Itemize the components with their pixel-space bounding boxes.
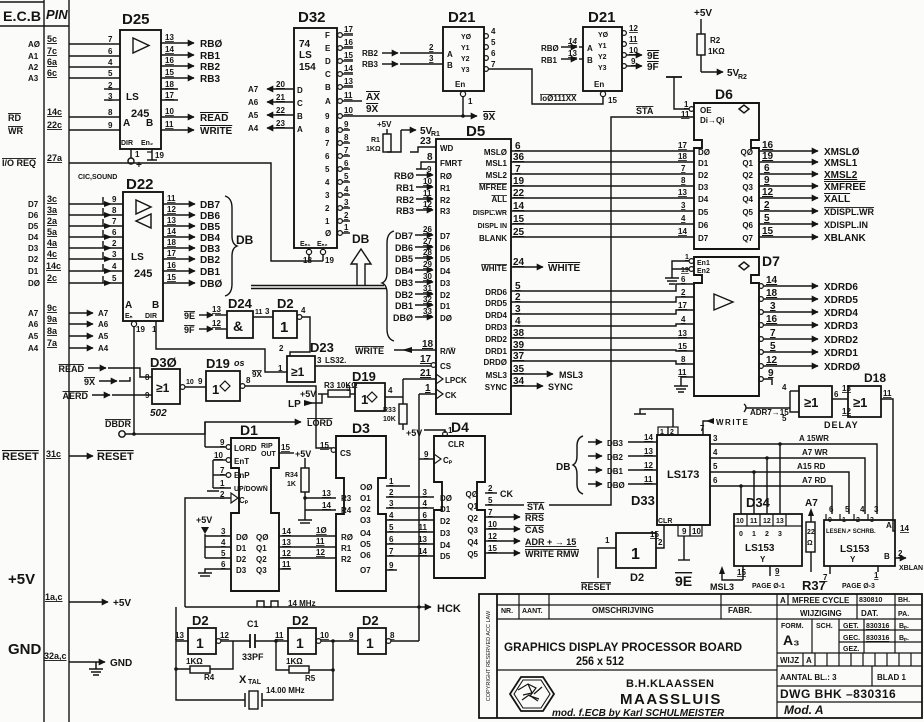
svg-text:D1: D1 <box>28 267 39 276</box>
ground symbol on GND rail <box>89 662 103 675</box>
svg-text:DRD1: DRD1 <box>485 347 507 356</box>
net STA from D4 Q1 <box>485 504 524 506</box>
svg-text:8: 8 <box>112 206 117 215</box>
data bus rows D7..D0 into D22 <box>69 197 123 283</box>
D24 output to D2 <box>253 316 273 318</box>
svg-text:2: 2 <box>112 239 117 248</box>
svg-text:6: 6 <box>112 228 117 237</box>
D33 pins 9,10 <box>678 525 690 536</box>
svg-text:10: 10 <box>320 631 329 640</box>
svg-text:14: 14 <box>568 37 577 46</box>
svg-text:8: 8 <box>246 376 251 385</box>
svg-text:8: 8 <box>427 152 433 163</box>
svg-text:A7: A7 <box>28 309 39 318</box>
svg-text:Y3: Y3 <box>461 67 470 74</box>
svg-text:QØ: QØ <box>466 490 478 499</box>
svg-text:29: 29 <box>423 260 432 269</box>
svg-text:1KΩ: 1KΩ <box>708 47 725 56</box>
svg-text:8: 8 <box>325 126 330 135</box>
svg-text:XDRD3: XDRD3 <box>824 321 858 332</box>
svg-text:B: B <box>884 552 890 561</box>
svg-text:Ø: Ø <box>325 229 331 238</box>
svg-text:4: 4 <box>681 315 686 324</box>
svg-text:3a: 3a <box>47 205 58 215</box>
DB bus brace right of D22 <box>225 196 237 296</box>
svg-text:9: 9 <box>220 438 225 447</box>
svg-text:D33: D33 <box>631 493 655 508</box>
svg-text:2c: 2c <box>47 273 57 283</box>
svg-text:D3: D3 <box>236 566 247 575</box>
title block grid lines <box>497 594 922 718</box>
svg-text:1: 1 <box>135 150 140 159</box>
svg-text:DB1: DB1 <box>607 467 624 476</box>
svg-text:13: 13 <box>678 188 687 197</box>
svg-text:PA.: PA. <box>898 611 909 618</box>
svg-text:9: 9 <box>631 57 636 66</box>
svg-text:A: A <box>297 125 303 134</box>
svg-text:D2: D2 <box>362 613 379 628</box>
wire osc1 input loop <box>176 607 188 641</box>
delay gate 1 <box>799 386 832 417</box>
svg-text:1: 1 <box>196 635 204 651</box>
svg-text:3c: 3c <box>47 194 57 204</box>
svg-text:A: A <box>125 300 132 311</box>
svg-text:1: 1 <box>344 223 349 232</box>
svg-text:D2: D2 <box>292 613 309 628</box>
svg-text:A: A <box>587 44 593 53</box>
svg-text:16: 16 <box>165 56 174 65</box>
svg-text:A7: A7 <box>98 309 109 318</box>
svg-text:9E: 9E <box>675 573 692 589</box>
svg-text:WD: WD <box>440 144 454 153</box>
svg-text:GND: GND <box>8 641 42 658</box>
svg-text:≥1: ≥1 <box>291 365 305 379</box>
svg-text:D: D <box>297 86 303 95</box>
svg-text:7: 7 <box>108 35 113 44</box>
svg-text:En2: En2 <box>697 268 710 275</box>
svg-text:D1: D1 <box>440 505 451 514</box>
svg-text:6: 6 <box>491 49 496 58</box>
svg-text:7: 7 <box>112 217 117 226</box>
svg-text:19: 19 <box>136 325 145 334</box>
svg-text:SCH.: SCH. <box>816 623 833 630</box>
svg-text:17: 17 <box>167 249 176 258</box>
svg-text:4: 4 <box>681 214 686 223</box>
net MSL3 arrow <box>511 373 553 375</box>
svg-text:XDRD2: XDRD2 <box>824 335 858 346</box>
svg-text:1Ø: 1Ø <box>316 526 327 535</box>
svg-text:CS: CS <box>440 362 452 371</box>
svg-text:DRD5: DRD5 <box>485 299 507 308</box>
svg-text:502: 502 <box>150 408 167 419</box>
svg-text:2: 2 <box>488 484 493 493</box>
svg-text:1: 1 <box>425 383 431 394</box>
svg-text:R4: R4 <box>341 506 352 515</box>
svg-text:12: 12 <box>488 532 497 541</box>
address rows A7..A4 <box>69 313 93 348</box>
svg-text:1: 1 <box>325 217 330 226</box>
svg-text:F: F <box>325 31 330 40</box>
svg-text:1: 1 <box>296 635 304 651</box>
svg-text:9: 9 <box>389 561 394 570</box>
svg-text:4c: 4c <box>47 249 57 259</box>
clock squarewave symbol <box>257 601 278 607</box>
D23 output to D5 CS <box>315 365 431 367</box>
net ADR+15 from D4 Q4 <box>485 540 520 542</box>
svg-text:5: 5 <box>221 549 226 558</box>
svg-text:os: os <box>234 358 245 368</box>
ECB connector column rails <box>43 0 45 722</box>
svg-text:19: 19 <box>762 151 774 162</box>
svg-text:WHITE: WHITE <box>548 263 581 274</box>
svg-text:Eₙ: Eₙ <box>125 313 133 320</box>
svg-text:GEZ.: GEZ. <box>843 646 859 653</box>
svg-text:XDISPL.IN: XDISPL.IN <box>824 220 868 230</box>
D5 FMRT pin 8 with ground hook <box>421 162 436 169</box>
svg-text:9: 9 <box>112 195 117 204</box>
wire D33 pin7 WRITE <box>703 421 712 435</box>
svg-text:1: 1 <box>874 571 879 580</box>
svg-text:1: 1 <box>631 546 640 563</box>
svg-text:2: 2 <box>898 549 903 558</box>
wires D5 MSL outputs to D6 <box>511 151 694 237</box>
svg-text:23: 23 <box>276 119 285 128</box>
svg-text:R1: R1 <box>431 131 440 138</box>
svg-text:12: 12 <box>220 631 229 640</box>
svg-text:D: D <box>325 57 331 66</box>
svg-text:MSLØ: MSLØ <box>484 148 507 157</box>
D25 En2 pin 19 <box>151 149 153 160</box>
svg-text:WRITE: WRITE <box>355 346 384 356</box>
svg-text:11: 11 <box>344 91 353 100</box>
wire 9X from D32 pin10 to D21 En and arrow <box>342 115 477 117</box>
svg-text:DB2: DB2 <box>200 255 220 266</box>
svg-text:FMRT: FMRT <box>440 159 462 168</box>
svg-text:RD: RD <box>8 113 21 123</box>
svg-text:Q5: Q5 <box>742 208 753 217</box>
svg-text:D5: D5 <box>698 208 709 217</box>
svg-text:WRITE RMW: WRITE RMW <box>525 549 579 559</box>
svg-text:DB6: DB6 <box>200 211 220 222</box>
svg-text:RB3: RB3 <box>362 60 379 69</box>
svg-text:4a: 4a <box>47 238 58 248</box>
svg-text:A7 WR: A7 WR <box>802 448 828 457</box>
D7 En1/En2 pins grounded <box>689 259 694 264</box>
svg-text:A 15WR: A 15WR <box>799 434 829 443</box>
svg-text:Q4: Q4 <box>742 195 753 204</box>
svg-text:AERD: AERD <box>62 391 88 401</box>
svg-text:A: A <box>325 97 331 106</box>
svg-text:R1: R1 <box>440 184 451 193</box>
svg-text:13: 13 <box>776 518 784 525</box>
svg-text:9: 9 <box>344 120 349 129</box>
svg-text:1: 1 <box>366 635 374 651</box>
svg-text:+5V: +5V <box>406 428 422 438</box>
svg-text:D1: D1 <box>440 302 451 311</box>
svg-text:HCK: HCK <box>437 603 461 615</box>
svg-text:O6: O6 <box>360 551 371 560</box>
svg-text:2: 2 <box>389 488 394 497</box>
svg-text:11: 11 <box>678 368 687 377</box>
svg-text:XDRD1: XDRD1 <box>824 348 858 359</box>
svg-text:20: 20 <box>276 80 285 89</box>
svg-text:RB1: RB1 <box>541 56 558 65</box>
svg-text:9X: 9X <box>252 370 262 379</box>
svg-text:WIJZIGING: WIJZIGING <box>800 609 842 618</box>
svg-text:DB3: DB3 <box>607 439 624 448</box>
svg-text:ADR + → 15: ADR + → 15 <box>525 537 576 547</box>
svg-text:9F: 9F <box>647 62 659 73</box>
svg-text:R2: R2 <box>341 555 352 564</box>
svg-text:D6: D6 <box>440 244 451 253</box>
svg-text:9: 9 <box>768 368 774 379</box>
svg-text:MSL3: MSL3 <box>559 370 583 380</box>
svg-text:XBLANK: XBLANK <box>824 233 866 244</box>
net 5V R1 <box>387 130 401 152</box>
svg-text:10: 10 <box>165 107 174 116</box>
svg-text:O5: O5 <box>360 540 371 549</box>
svg-text:Y1: Y1 <box>598 43 607 50</box>
svg-text:+5V: +5V <box>8 571 35 588</box>
svg-text:STA: STA <box>636 106 654 116</box>
svg-text:17: 17 <box>678 141 687 150</box>
svg-text:E.C.B: E.C.B <box>3 8 41 24</box>
svg-text:XDRD4: XDRD4 <box>824 308 858 319</box>
svg-text:14: 14 <box>900 524 909 533</box>
svg-text:D2: D2 <box>28 255 39 264</box>
svg-text:1: 1 <box>842 517 846 524</box>
svg-text:9a: 9a <box>47 314 58 324</box>
net MSL3 up arrow <box>722 570 743 580</box>
svg-text:5: 5 <box>325 165 330 174</box>
svg-text:12: 12 <box>212 319 221 328</box>
svg-text:11: 11 <box>419 523 428 532</box>
svg-text:5: 5 <box>845 505 850 514</box>
svg-text:1: 1 <box>468 97 473 106</box>
svg-text:7: 7 <box>325 139 330 148</box>
svg-text:ALL: ALL <box>491 195 507 204</box>
svg-text:WRITE: WRITE <box>716 418 749 427</box>
svg-text:15: 15 <box>678 342 687 351</box>
D30 output to D19 <box>180 385 185 390</box>
svg-text:DB4: DB4 <box>200 233 220 244</box>
svg-text:14c: 14c <box>47 107 62 117</box>
svg-text:18: 18 <box>303 256 312 265</box>
svg-text:1a,c: 1a,c <box>45 592 63 602</box>
svg-text:5: 5 <box>112 274 117 283</box>
wire CK vertical HCK rail <box>418 394 420 607</box>
ground under D1 D3 input <box>198 572 212 574</box>
svg-text:3: 3 <box>713 434 718 443</box>
D1 control input wires <box>205 447 231 488</box>
svg-text:8a: 8a <box>47 326 58 336</box>
svg-text:11: 11 <box>255 309 263 316</box>
svg-text:12: 12 <box>423 200 432 209</box>
svg-text:D7: D7 <box>762 253 780 269</box>
svg-text:D3: D3 <box>28 244 39 253</box>
logo hexagon <box>510 677 554 711</box>
svg-text:2: 2 <box>325 204 330 213</box>
svg-text:6a: 6a <box>47 57 58 67</box>
svg-text:18: 18 <box>678 152 687 161</box>
svg-text:7a: 7a <box>47 338 58 348</box>
svg-text:14: 14 <box>167 227 176 236</box>
net SYNC arrow <box>511 385 543 387</box>
svg-text:17: 17 <box>420 354 432 365</box>
svg-text:RRS: RRS <box>525 513 544 523</box>
svg-text:D2: D2 <box>277 296 294 311</box>
svg-text:3: 3 <box>265 307 270 316</box>
svg-text:A4: A4 <box>248 124 259 133</box>
svg-text:Y3: Y3 <box>598 65 607 72</box>
tap arrows on D rows <box>104 201 112 286</box>
net WHITE arrow <box>511 266 543 268</box>
wire D2 out to D33 CLR <box>656 525 664 548</box>
svg-text:PAGE Ø-3: PAGE Ø-3 <box>842 583 875 590</box>
svg-text:MSL3: MSL3 <box>486 371 508 380</box>
svg-text:DB5: DB5 <box>200 222 220 233</box>
svg-text:5: 5 <box>713 462 718 471</box>
svg-text:27: 27 <box>423 237 432 246</box>
svg-text:2: 2 <box>279 344 284 353</box>
wire WR row <box>69 129 120 131</box>
svg-text:MSL3: MSL3 <box>710 582 734 592</box>
svg-text:13: 13 <box>568 49 577 58</box>
svg-text:15: 15 <box>488 544 497 553</box>
svg-text:Q1: Q1 <box>742 159 753 168</box>
svg-text:RESET: RESET <box>581 582 612 592</box>
svg-text:D5: D5 <box>466 123 485 140</box>
svg-text:RB2: RB2 <box>396 195 414 205</box>
svg-text:DB: DB <box>556 462 570 473</box>
svg-text:21: 21 <box>420 368 432 379</box>
svg-text:6: 6 <box>681 275 686 284</box>
svg-text:RB2: RB2 <box>200 62 220 73</box>
wire I/O REQ to D32 enables <box>69 163 323 261</box>
DB bus double line <box>251 285 384 287</box>
svg-text:YØ: YØ <box>461 34 472 41</box>
svg-text:WRITE: WRITE <box>200 126 233 137</box>
svg-text:DØ: DØ <box>236 533 248 542</box>
svg-text:Bₚ.: Bₚ. <box>899 623 909 630</box>
svg-text:4: 4 <box>491 27 496 36</box>
svg-text:Q6: Q6 <box>742 221 753 230</box>
svg-text:XALL: XALL <box>824 194 850 205</box>
svg-text:D4: D4 <box>440 267 451 276</box>
svg-text:D4: D4 <box>440 541 451 550</box>
svg-text:32: 32 <box>423 295 432 304</box>
D1 Cp clock wire <box>185 498 231 607</box>
svg-text:12: 12 <box>766 355 778 366</box>
svg-text:13: 13 <box>678 329 687 338</box>
svg-text:5: 5 <box>346 384 351 393</box>
svg-text:BLANK: BLANK <box>479 234 507 243</box>
svg-text:+5V: +5V <box>377 120 392 129</box>
D5 CK pin 1 <box>436 389 443 399</box>
svg-text:CIC,SOUND: CIC,SOUND <box>78 174 117 181</box>
svg-text:C: C <box>297 99 303 108</box>
svg-text:XMFREE: XMFREE <box>824 182 866 193</box>
svg-text:11: 11 <box>644 475 653 484</box>
svg-text:14: 14 <box>322 501 331 510</box>
svg-text:4: 4 <box>782 383 787 392</box>
svg-text:23: 23 <box>420 136 432 147</box>
svg-text:LS: LS <box>299 50 312 61</box>
svg-text:32a,c: 32a,c <box>44 651 67 661</box>
svg-text:D2: D2 <box>192 613 209 628</box>
wire D21.1 Y3 to D21.2 En <box>488 69 603 104</box>
svg-text:6c: 6c <box>47 68 57 78</box>
svg-text:RØ: RØ <box>440 172 452 181</box>
svg-text:B: B <box>152 300 159 311</box>
svg-text:1: 1 <box>684 100 689 109</box>
svg-text:O3: O3 <box>360 516 371 525</box>
svg-text:4: 4 <box>860 505 865 514</box>
svg-text:LORD: LORD <box>307 418 333 428</box>
svg-text:10: 10 <box>423 177 432 186</box>
svg-text:2: 2 <box>658 538 663 547</box>
svg-text:XBLAN: XBLAN <box>899 565 923 572</box>
svg-text:6: 6 <box>423 511 428 520</box>
svg-text:Q3: Q3 <box>256 566 267 575</box>
svg-text:9: 9 <box>427 165 432 174</box>
svg-text:18: 18 <box>165 80 174 89</box>
svg-text:≥1: ≥1 <box>156 381 170 395</box>
wire RESET into D2 <box>598 548 616 578</box>
svg-text:Q1: Q1 <box>467 502 478 511</box>
svg-text:4: 4 <box>301 306 306 315</box>
svg-text:R34: R34 <box>285 472 298 479</box>
net XBLAN from LS153.2 B <box>895 557 906 559</box>
svg-text:14 MHz: 14 MHz <box>288 599 316 608</box>
svg-text:GET.: GET. <box>843 623 859 630</box>
svg-text:3: 3 <box>874 505 879 514</box>
svg-text:DISPL IN: DISPL IN <box>478 223 507 230</box>
svg-text:EnT: EnT <box>234 457 249 466</box>
svg-text:R5: R5 <box>305 674 316 683</box>
svg-text:6: 6 <box>108 47 113 56</box>
wire RD row <box>69 116 120 118</box>
D3 CS pin 15 <box>331 448 336 453</box>
svg-text:QØ: QØ <box>256 533 268 542</box>
svg-text:74: 74 <box>299 39 311 50</box>
svg-text:15: 15 <box>762 226 774 237</box>
svg-text:A4: A4 <box>28 344 39 353</box>
svg-text:A15 RD: A15 RD <box>797 462 826 471</box>
svg-text:1: 1 <box>278 364 283 373</box>
svg-text:14: 14 <box>766 275 778 286</box>
wire D19 out to D3 CS <box>245 386 332 448</box>
svg-text:CS: CS <box>340 449 352 458</box>
svg-text:B: B <box>297 112 303 121</box>
svg-text:R33: R33 <box>383 407 396 414</box>
svg-text:11: 11 <box>629 35 638 44</box>
svg-text:5: 5 <box>108 69 113 78</box>
net RRS from D4 Q2 <box>485 516 520 518</box>
svg-text:DB7: DB7 <box>395 231 413 241</box>
svg-text:D3Ø: D3Ø <box>150 355 177 370</box>
svg-text:12: 12 <box>629 24 638 33</box>
D7 outputs to XDRD nets <box>763 286 818 385</box>
svg-text:D6: D6 <box>698 221 709 230</box>
svg-text:DWG BHK –830316: DWG BHK –830316 <box>780 687 896 701</box>
svg-text:8: 8 <box>390 631 395 640</box>
svg-text:+5V: +5V <box>694 8 712 19</box>
svg-text:RBØ: RBØ <box>541 44 559 53</box>
svg-text:26: 26 <box>423 225 432 234</box>
svg-text:10: 10 <box>214 451 223 460</box>
svg-text:RB3: RB3 <box>200 74 220 85</box>
